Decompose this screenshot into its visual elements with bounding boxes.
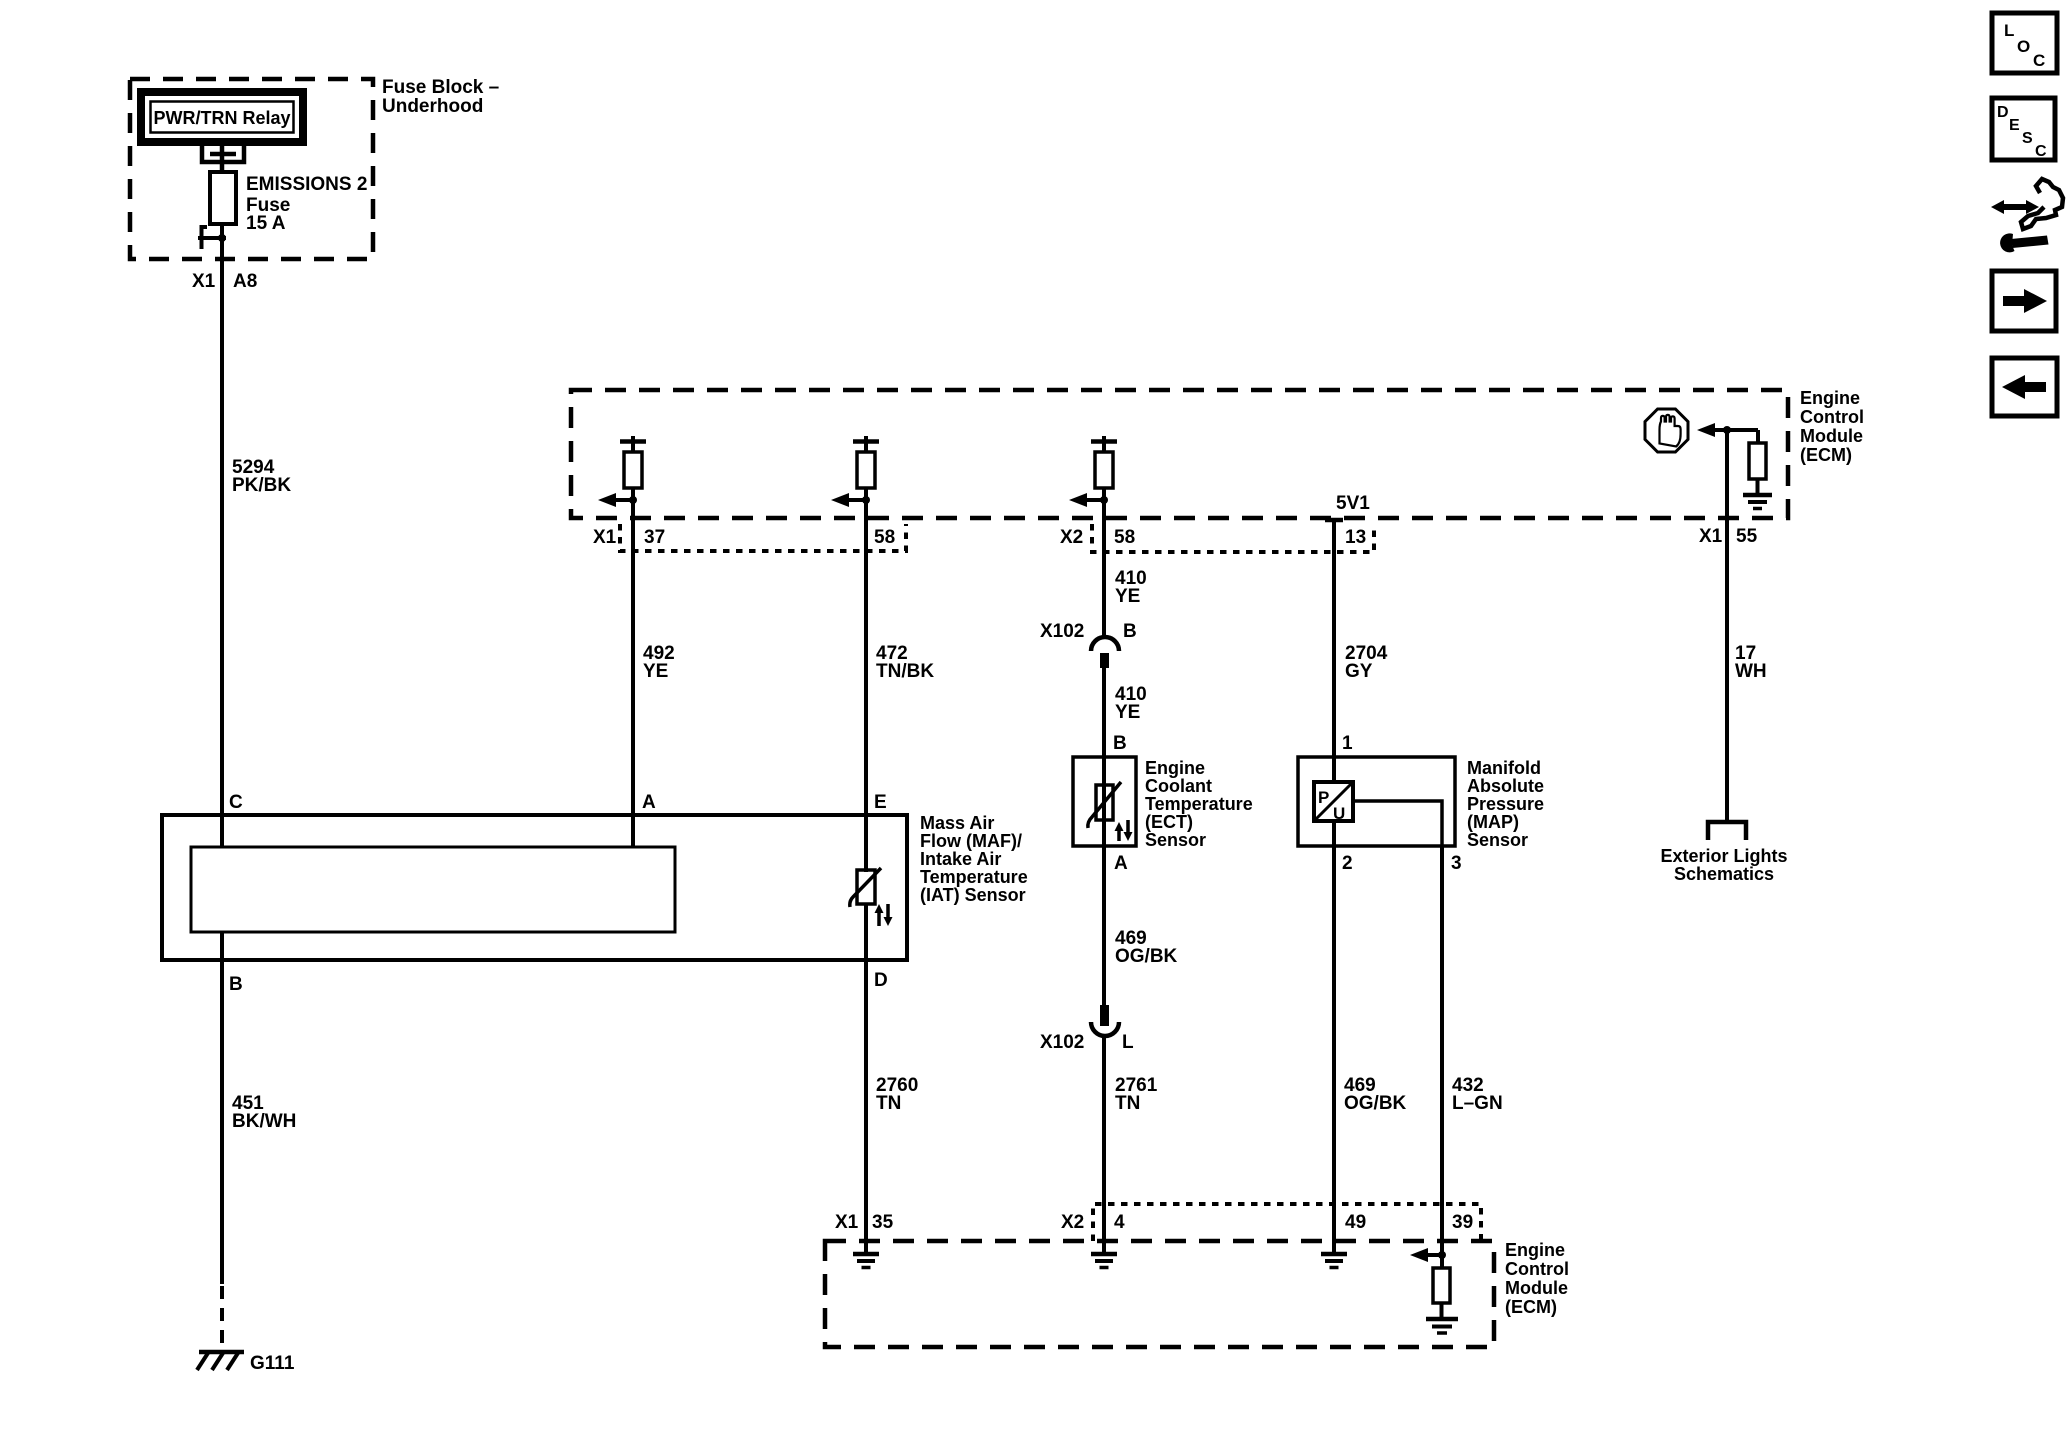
ECM internal resistor pin39 [1440, 1255, 1444, 1268]
svg-text:OG/BK: OG/BK [1115, 946, 1178, 967]
svg-text:Control: Control [1800, 407, 1864, 427]
connector X2 dotted box top [1092, 524, 1374, 552]
MAF/IAT sensor outer box [162, 815, 907, 960]
ECM pullup cap pin58a [864, 436, 868, 452]
svg-text:X1: X1 [593, 527, 617, 548]
svg-text:O: O [2017, 37, 2030, 56]
svg-text:BK/WH: BK/WH [232, 1111, 296, 1132]
ECT sensor box [1073, 757, 1136, 846]
ECM pullup cap pin58b [1102, 436, 1106, 452]
svg-text:PWR/TRN Relay: PWR/TRN Relay [153, 108, 290, 128]
off-page connector exterior lights [1708, 822, 1746, 840]
ECM internal resistor right [1756, 430, 1760, 443]
svg-text:X2: X2 [1061, 1212, 1084, 1233]
fuse block underhood dashed box [130, 79, 373, 259]
nav icon wrench [2011, 236, 2049, 249]
svg-text:Coolant: Coolant [1145, 776, 1212, 796]
fuse holder upper clip [202, 146, 244, 162]
ECM pullup cap pin37 [631, 436, 635, 452]
svg-text:Engine: Engine [1145, 758, 1205, 778]
svg-text:G111: G111 [250, 1353, 295, 1374]
svg-text:(IAT) Sensor: (IAT) Sensor [920, 885, 1026, 905]
wire resistor to splice X102 B (circuit 410) [1102, 488, 1106, 637]
svg-text:X1: X1 [1699, 526, 1723, 547]
junction dot pin58b [1100, 496, 1108, 504]
svg-text:13: 13 [1345, 527, 1366, 548]
svg-text:L–GN: L–GN [1452, 1093, 1503, 1114]
svg-text:Fuse Block –: Fuse Block – [382, 77, 499, 98]
svg-text:A: A [1114, 853, 1128, 874]
svg-text:Control: Control [1505, 1259, 1569, 1279]
svg-text:A: A [642, 792, 656, 813]
svg-text:Schematics: Schematics [1674, 864, 1774, 884]
fuse terminal T-bar [210, 152, 236, 157]
svg-text:Manifold: Manifold [1467, 758, 1541, 778]
wire 5V1 to MAP pin1 (circuit 2704) [1332, 520, 1336, 783]
arrow signal pin39 [1424, 1253, 1442, 1257]
wire ECM pin55 to exterior lights (circuit 17) [1725, 430, 1729, 822]
wire X102 B to ECT (circuit 410) [1102, 668, 1106, 1005]
svg-text:L: L [2004, 21, 2014, 40]
nav icon forward arrow [1992, 271, 2056, 331]
wire relay to fuse [220, 146, 225, 174]
MAF inner element box [191, 847, 675, 932]
svg-text:TN/BK: TN/BK [876, 661, 934, 682]
MAP transducer P/U [1314, 782, 1353, 821]
fuse EMISSIONS 2 15A [210, 172, 236, 224]
connector X102 B male pin [1100, 653, 1109, 668]
ECM internal resistor pin58b [1095, 452, 1113, 488]
svg-text:5V1: 5V1 [1336, 493, 1370, 514]
nav icon vehicle double arrow [2000, 204, 2030, 210]
svg-text:Module: Module [1800, 426, 1863, 446]
svg-text:TN: TN [1115, 1093, 1140, 1114]
ECM driver octagon [1645, 409, 1688, 452]
wire MAP pin3 to ECM pin39 (circuit 432) [1440, 846, 1444, 1256]
svg-text:C: C [2035, 143, 2047, 160]
svg-text:Pressure: Pressure [1467, 794, 1544, 814]
svg-text:Flow (MAF)/: Flow (MAF)/ [920, 831, 1022, 851]
ECM top dashed box [571, 390, 1788, 518]
wire resistor to IAT thermistor (circuit 472) [864, 488, 868, 872]
svg-text:39: 39 [1452, 1212, 1473, 1233]
svg-text:Module: Module [1505, 1278, 1568, 1298]
svg-text:E: E [874, 792, 887, 813]
svg-text:X102: X102 [1040, 1032, 1084, 1053]
wire X102 L to ECM pin4 (circuit 2761) [1102, 1036, 1106, 1253]
ground ECM pin4 [1091, 1252, 1117, 1257]
svg-text:E: E [2009, 117, 2020, 134]
wire dashed segment to ground [220, 1286, 224, 1352]
svg-text:GY: GY [1345, 661, 1373, 682]
connector X102 L male pin [1100, 1005, 1109, 1026]
svg-text:WH: WH [1735, 661, 1767, 682]
svg-text:Underhood: Underhood [382, 96, 483, 117]
nav icon DESC [1992, 98, 2055, 160]
svg-text:D: D [874, 970, 888, 991]
svg-text:L: L [1122, 1032, 1134, 1053]
svg-text:15 A: 15 A [246, 213, 286, 234]
svg-text:Intake Air: Intake Air [920, 849, 1001, 869]
svg-text:55: 55 [1736, 526, 1758, 547]
wire MAP signal tap to pin3 [1353, 801, 1442, 846]
svg-text:Temperature: Temperature [1145, 794, 1253, 814]
svg-text:Sensor: Sensor [1145, 830, 1206, 850]
junction dot pin55 [1723, 426, 1731, 434]
svg-text:TN: TN [876, 1093, 901, 1114]
wire resistor to ground right [1756, 479, 1760, 494]
svg-text:37: 37 [644, 527, 665, 548]
arrow signal pin58b [1081, 498, 1104, 502]
svg-text:B: B [1113, 733, 1127, 754]
wire IAT to ECM pin35 (circuit 2760) [864, 904, 868, 1253]
ground ECM pin35 [853, 1252, 879, 1257]
svg-text:X102: X102 [1040, 621, 1084, 642]
nav icon vehicle outline [2021, 179, 2063, 229]
svg-text:4: 4 [1114, 1212, 1125, 1233]
svg-text:(MAP): (MAP) [1467, 812, 1519, 832]
svg-text:X1: X1 [192, 271, 216, 292]
svg-text:35: 35 [872, 1212, 894, 1233]
svg-text:X2: X2 [1060, 527, 1083, 548]
svg-text:PK/BK: PK/BK [232, 475, 291, 496]
svg-text:YE: YE [1115, 586, 1140, 607]
svg-text:(ECM): (ECM) [1800, 445, 1852, 465]
svg-text:P: P [1318, 788, 1329, 807]
svg-text:U: U [1333, 804, 1345, 823]
ECM internal resistor pin58a [857, 452, 875, 488]
ECT thermistor [1096, 785, 1113, 820]
svg-text:Engine: Engine [1505, 1240, 1565, 1260]
junction dot fuse output [218, 234, 226, 242]
ground ECM internal right [1743, 493, 1772, 498]
svg-text:Mass Air: Mass Air [920, 813, 994, 833]
ECM bottom dashed box [825, 1241, 1494, 1347]
svg-text:B: B [229, 974, 243, 995]
connector X102 L female arc [1091, 1022, 1119, 1036]
svg-text:C: C [2033, 51, 2045, 70]
svg-text:Exterior Lights: Exterior Lights [1660, 846, 1787, 866]
svg-text:58: 58 [874, 527, 895, 548]
svg-text:(ECT): (ECT) [1145, 812, 1193, 832]
svg-text:X1: X1 [835, 1212, 859, 1233]
ground ECM pin39 [1426, 1317, 1458, 1322]
svg-text:Engine: Engine [1800, 388, 1860, 408]
ECM 5V1 supply T-bar [1325, 518, 1343, 523]
svg-text:58: 58 [1114, 527, 1135, 548]
connector X1 dotted box top [620, 524, 906, 551]
ECM internal resistor pin37 [624, 452, 642, 488]
relay PWR/TRN outer box [141, 92, 303, 142]
svg-text:A8: A8 [233, 271, 257, 292]
svg-text:C: C [229, 792, 243, 813]
svg-text:S: S [2022, 130, 2033, 147]
arrow signal pin37 [610, 498, 633, 502]
wire MAP pin2 to ECM pin49 (circuit 469) [1332, 821, 1336, 1253]
arrow to octagon [1712, 428, 1758, 432]
wire fuse to MAF pin C (circuit 5294) [220, 224, 224, 847]
ground G111 chassis [199, 1350, 244, 1355]
ground ECM pin49 [1321, 1252, 1347, 1257]
svg-text:YE: YE [1115, 702, 1140, 723]
svg-text:EMISSIONS 2: EMISSIONS 2 [246, 174, 367, 195]
relay PWR/TRN inner box [151, 102, 294, 133]
fuse lower clip terminal [202, 227, 208, 249]
svg-text:2: 2 [1342, 853, 1353, 874]
arrow signal pin58a [843, 498, 866, 502]
svg-text:OG/BK: OG/BK [1344, 1093, 1407, 1114]
MAP sensor box [1298, 757, 1455, 846]
junction dot pin58a [862, 496, 870, 504]
svg-text:D: D [1997, 104, 2009, 121]
junction dot pin37 [629, 496, 637, 504]
nav icon LOC [1992, 13, 2057, 73]
connector X2 dotted box bottom [1093, 1204, 1481, 1241]
IAT thermistor [857, 870, 875, 904]
svg-text:(ECM): (ECM) [1505, 1297, 1557, 1317]
svg-text:Temperature: Temperature [920, 867, 1028, 887]
svg-text:YE: YE [643, 661, 668, 682]
svg-text:3: 3 [1451, 853, 1462, 874]
junction dot pin39 [1438, 1251, 1446, 1259]
nav icon back arrow [1992, 358, 2057, 416]
wire MAF pin B to G111 (circuit 451) [220, 932, 224, 1284]
hand symbol [1660, 415, 1681, 447]
svg-text:49: 49 [1345, 1212, 1366, 1233]
svg-text:B: B [1123, 621, 1137, 642]
svg-text:Absolute: Absolute [1467, 776, 1544, 796]
svg-text:Sensor: Sensor [1467, 830, 1528, 850]
svg-text:1: 1 [1342, 733, 1353, 754]
wire resistor to MAF pin A (circuit 492) [631, 488, 635, 847]
connector X102 B female arc [1091, 637, 1119, 651]
